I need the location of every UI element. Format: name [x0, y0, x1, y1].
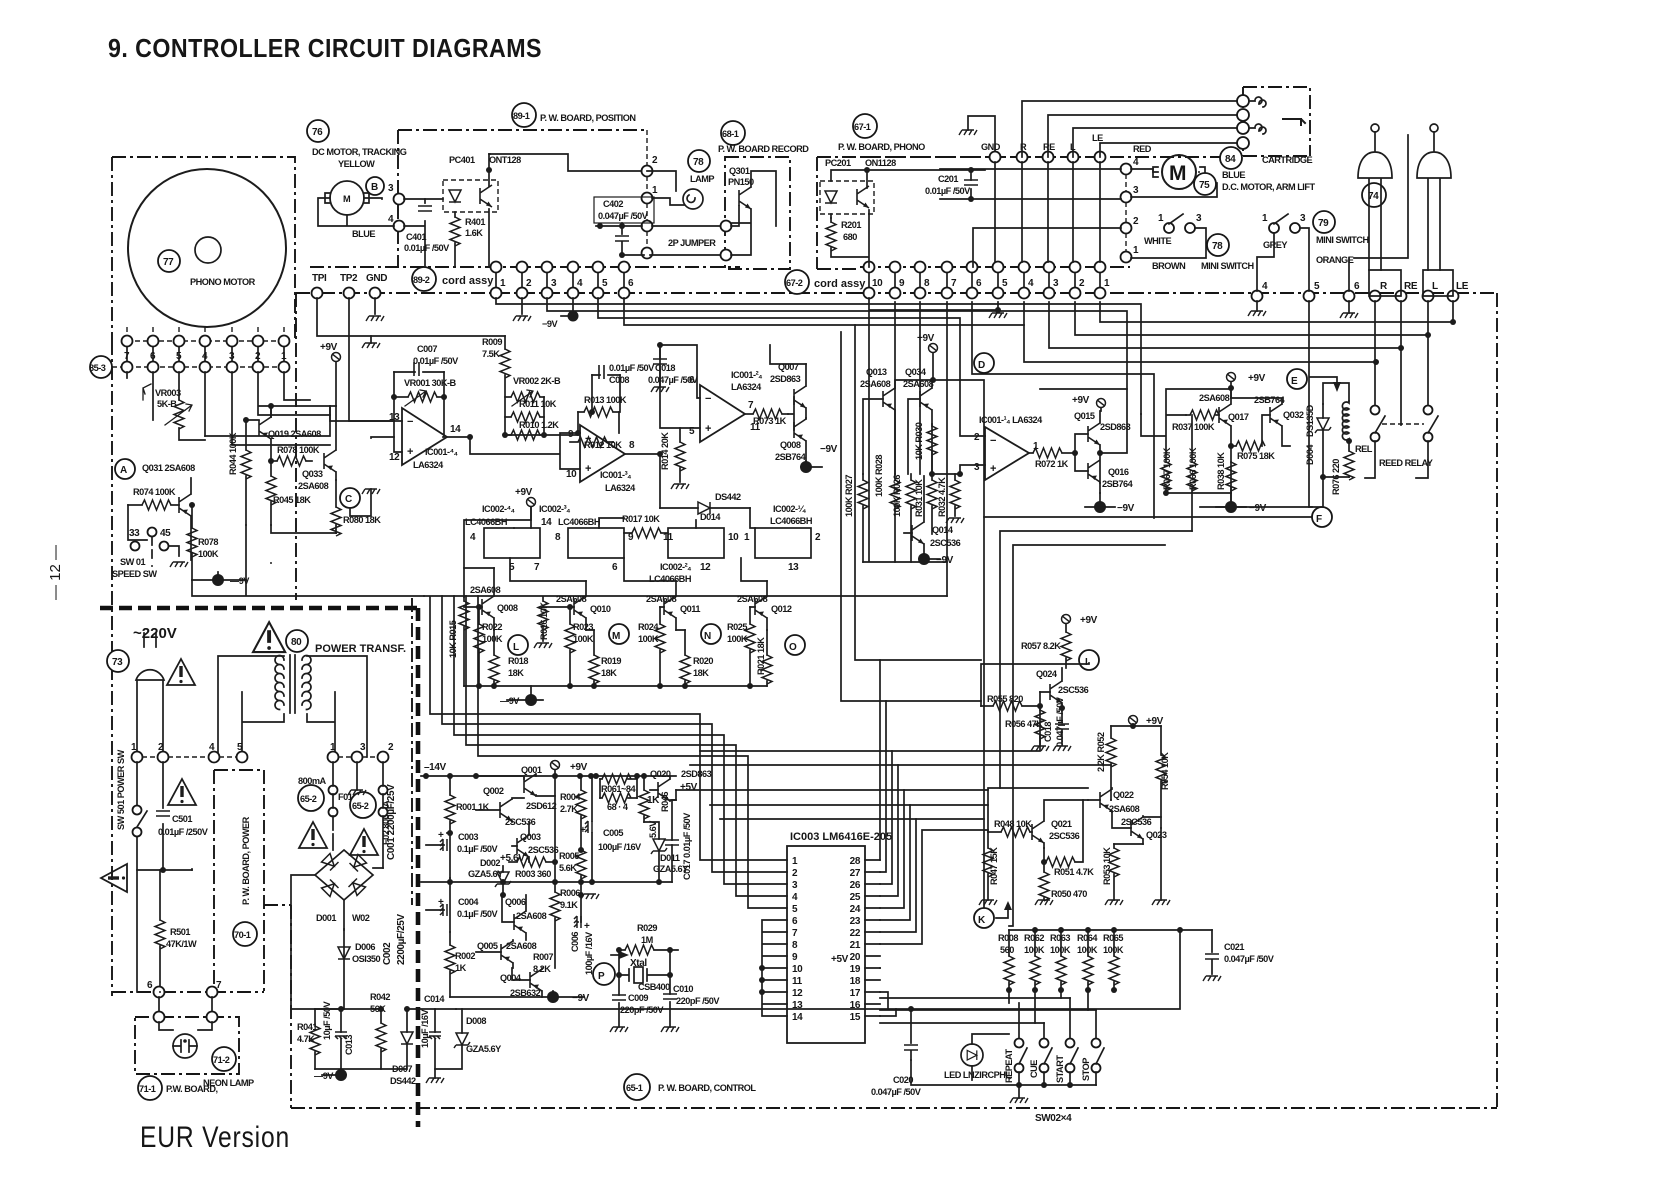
svg-text:PHONO MOTOR: PHONO MOTOR [190, 277, 256, 287]
power board right border dash-dot [411, 598, 413, 905]
control board left border [290, 905, 292, 1108]
svg-text:D001: D001 [316, 913, 336, 923]
svg-text:1M: 1M [641, 935, 654, 945]
svg-text:C006: C006 [570, 932, 580, 952]
svg-text:DS442: DS442 [390, 1076, 416, 1086]
ground top [959, 130, 977, 135]
node L circle [508, 635, 528, 655]
svg-text:18K: 18K [508, 668, 524, 678]
warning triangle b [350, 829, 378, 855]
+9V right [1227, 373, 1236, 382]
svg-text:100K R027: 100K R027 [844, 475, 854, 517]
wire between plugs [1349, 135, 1408, 291]
relay wires [1323, 383, 1349, 477]
svg-text:P. W. BOARD, CONTROL: P. W. BOARD, CONTROL [658, 1083, 756, 1093]
transformer secondary coil [302, 656, 311, 710]
ref 76 circle [307, 120, 329, 142]
67-2 circle label [785, 270, 809, 294]
wire down from C [350, 489, 371, 516]
wire K feed [1000, 531, 1192, 788]
svg-text:R073 1K: R073 1K [753, 416, 787, 426]
heavy dashed border power supply right vertical [416, 608, 421, 1127]
svg-text:1: 1 [1133, 245, 1139, 256]
svg-text:2SA608: 2SA608 [516, 911, 547, 921]
svg-text:BLUE: BLUE [352, 229, 375, 239]
svg-text:+: + [990, 463, 996, 475]
svg-text:IC001-⁴₄: IC001-⁴₄ [425, 447, 458, 457]
IC002-4 box [484, 528, 540, 558]
svg-text:R051 4.7K: R051 4.7K [1054, 867, 1094, 877]
svg-text:0.1µF /50V: 0.1µF /50V [457, 909, 499, 919]
svg-text:LAMP: LAMP [690, 174, 714, 184]
svg-text:−9V: −9V [572, 993, 590, 1004]
cartridge connector wires R RE L LE [1022, 101, 1237, 157]
svg-text:15: 15 [850, 1012, 861, 1023]
svg-text:SW 501 POWER SW: SW 501 POWER SW [116, 749, 126, 830]
svg-text:C020: C020 [893, 1075, 913, 1085]
neon lamp [159, 1022, 212, 1030]
svg-text:POWER TRANSF.: POWER TRANSF. [315, 643, 406, 655]
svg-text:R017 10K: R017 10K [622, 514, 660, 524]
bridge rectifier W02 [315, 850, 373, 900]
switch STOP [1092, 1039, 1101, 1048]
capacitor C402 [621, 223, 623, 255]
right border vertical dash-dot [1496, 293, 1498, 1108]
svg-text:10: 10 [728, 532, 739, 543]
svg-text:89-2: 89-2 [413, 275, 430, 285]
IC002-2 box [668, 528, 724, 558]
svg-text:IC001-¹₄ LA6324: IC001-¹₄ LA6324 [979, 415, 1043, 425]
svg-text:cord assy: cord assy [442, 275, 494, 287]
svg-text:DS442: DS442 [715, 492, 741, 502]
svg-text:R001 1K: R001 1K [456, 802, 490, 812]
svg-text:L: L [513, 642, 519, 653]
svg-text:SPEED SW: SPEED SW [112, 569, 157, 579]
svg-text:IC002-³₄: IC002-³₄ [539, 504, 570, 514]
svg-text:D: D [978, 360, 985, 371]
svg-text:Q022: Q022 [1113, 790, 1134, 800]
svg-text:78: 78 [693, 157, 704, 168]
svg-text:75: 75 [1199, 180, 1210, 191]
svg-text:79: 79 [1318, 218, 1329, 229]
svg-text:C501: C501 [172, 814, 192, 824]
svg-text:13: 13 [792, 1000, 803, 1011]
svg-text:R050 470: R050 470 [1051, 889, 1087, 899]
svg-text:VR002 2K-B: VR002 2K-B [513, 376, 561, 386]
svg-text:+: + [584, 921, 590, 932]
svg-text:3: 3 [1133, 185, 1139, 196]
opamp IC001-3 triangle [580, 425, 625, 482]
svg-text:21: 21 [850, 940, 861, 951]
svg-text:R042: R042 [370, 992, 390, 1002]
svg-text:Q002: Q002 [483, 786, 504, 796]
svg-text:3: 3 [360, 742, 366, 753]
svg-text:2SD863: 2SD863 [770, 374, 801, 384]
svg-text:5: 5 [1314, 281, 1320, 292]
svg-text:Q020: Q020 [650, 769, 671, 779]
ground 3' [348, 790, 366, 795]
svg-text:4: 4 [202, 351, 208, 362]
svg-text:2SC536: 2SC536 [1049, 831, 1080, 841]
svg-text:C: C [345, 494, 352, 505]
warning triangle near plug [167, 659, 195, 685]
svg-text:100µF /16V: 100µF /16V [598, 842, 642, 852]
svg-text:ON1128: ON1128 [865, 158, 896, 168]
wire node8 down [919, 302, 921, 474]
node K circle [974, 908, 994, 928]
speed switch arrow [143, 384, 151, 400]
svg-text:−9V: −9V [1117, 503, 1135, 514]
switch common line [911, 1060, 1096, 1085]
ground under C006 [578, 895, 581, 922]
wires R013/C008 loop [505, 375, 620, 435]
svg-text:0.01µF /50V: 0.01µF /50V [404, 243, 450, 253]
ref 80 circle [286, 630, 308, 652]
svg-text:Q024: Q024 [1036, 669, 1058, 679]
svg-text:0.1µF /50V: 0.1µF /50V [457, 844, 499, 854]
svg-text:P. W. BOARD, POWER: P. W. BOARD, POWER [241, 816, 251, 905]
svg-text:–14V: –14V [424, 762, 446, 773]
phono motor circle [128, 169, 286, 327]
svg-text:19: 19 [850, 964, 861, 975]
svg-text:10µF /16V: 10µF /16V [420, 1009, 430, 1048]
svg-text:3: 3 [388, 183, 394, 194]
IC003 left pin numbers [792, 856, 803, 1023]
svg-text:3: 3 [1196, 213, 1202, 224]
svg-text:C007: C007 [417, 344, 437, 354]
svg-text:7: 7 [748, 400, 754, 411]
svg-text:Q010: Q010 [590, 604, 611, 614]
wire PC401 emitter down [488, 209, 490, 267]
svg-text:45: 45 [160, 528, 171, 539]
cartridge box border [1243, 87, 1310, 156]
svg-text:−: − [990, 435, 996, 447]
svg-text:R061~84: R061~84 [601, 784, 636, 794]
svg-text:18K: 18K [693, 668, 709, 678]
svg-text:3: 3 [1300, 213, 1306, 224]
switch REPEAT [1015, 1039, 1024, 1048]
base bus wires to 4066 outputs [464, 558, 767, 597]
svg-text:R002: R002 [455, 951, 475, 961]
svg-text:3: 3 [974, 462, 980, 473]
svg-text:P. W. BOARD, PHONO: P. W. BOARD, PHONO [838, 142, 925, 152]
ref 78b circle [1207, 234, 1229, 256]
svg-text:33: 33 [129, 528, 140, 539]
PC201 diode [825, 191, 837, 203]
svg-text:2P JUMPER: 2P JUMPER [668, 238, 716, 248]
reed switch 2 [1424, 406, 1433, 415]
svg-text:IC001-²₄: IC001-²₄ [731, 370, 762, 380]
svg-text:10K R030: 10K R030 [914, 422, 924, 460]
svg-text:TPI: TPI [312, 273, 327, 284]
svg-text:5: 5 [1002, 278, 1008, 289]
svg-text:−: − [585, 433, 591, 445]
svg-text:— 12 —: — 12 — [47, 545, 64, 600]
svg-text:78: 78 [1212, 241, 1223, 252]
reed switch wires [1365, 301, 1428, 478]
svg-text:C014: C014 [424, 994, 445, 1004]
svg-text:1: 1 [744, 532, 750, 543]
svg-text:R006: R006 [560, 888, 580, 898]
svg-text:10µF /50V: 10µF /50V [322, 1001, 332, 1040]
svg-text:R501: R501 [170, 927, 190, 937]
-9V dot left [212, 574, 224, 586]
wire node5 run [598, 298, 960, 380]
svg-text:IC003 LM6416E-205: IC003 LM6416E-205 [790, 831, 892, 843]
svg-text:SW 01: SW 01 [120, 557, 145, 567]
optocoupler PC401 dashed box [443, 180, 498, 212]
node F circle [1312, 507, 1332, 527]
svg-text:7.5K: 7.5K [482, 349, 500, 359]
capacitor C401 [418, 206, 432, 211]
svg-text:LE: LE [1456, 281, 1469, 292]
svg-text:LE: LE [1092, 133, 1103, 143]
svg-text:GREY: GREY [1263, 240, 1287, 250]
svg-text:W02: W02 [352, 913, 370, 923]
wire node3b run [1049, 302, 1401, 348]
svg-text:C018: C018 [1043, 722, 1053, 742]
svg-text:R010 1.2K: R010 1.2K [519, 420, 559, 430]
wire from 85-3 area to opamp minus [330, 406, 394, 421]
wire node3 run [547, 298, 1127, 389]
svg-text:R201: R201 [841, 220, 861, 230]
svg-text:14: 14 [541, 517, 552, 528]
opamp IC001-4 triangle [402, 408, 447, 465]
svg-text:76: 76 [312, 127, 323, 138]
svg-text:0.047µF /50V: 0.047µF /50V [871, 1087, 922, 1097]
svg-text:Q008: Q008 [497, 603, 518, 613]
switch wires from resistors [1009, 990, 1088, 1023]
relay coil [1342, 401, 1349, 441]
svg-text:22: 22 [850, 928, 861, 939]
border at x=296 below cord assy [295, 293, 297, 600]
svg-text:+9V: +9V [515, 487, 533, 498]
IC003 right pin risers [880, 660, 988, 1016]
ref 71-1 [138, 1076, 162, 1100]
svg-text:70-1: 70-1 [234, 930, 251, 940]
svg-text:100K: 100K [198, 549, 219, 559]
svg-text:Q006: Q006 [505, 897, 526, 907]
svg-text:6: 6 [150, 351, 156, 362]
svg-text:Q016: Q016 [1108, 467, 1129, 477]
svg-text:73: 73 [112, 657, 123, 668]
svg-text:67-1: 67-1 [854, 122, 871, 132]
-9V dot row [525, 694, 537, 706]
svg-text:6: 6 [147, 980, 153, 991]
svg-text:−: − [407, 416, 413, 428]
dashed link between reed switches [1382, 423, 1424, 425]
svg-text:+: + [438, 830, 444, 841]
jumper node circles [721, 221, 732, 232]
svg-text:2SA608: 2SA608 [860, 379, 891, 389]
svg-text:47K/1W: 47K/1W [166, 939, 197, 949]
svg-text:10: 10 [792, 964, 803, 975]
svg-text:+: + [585, 463, 591, 475]
svg-text:R037 100K: R037 100K [1172, 422, 1215, 432]
svg-text:Q004: Q004 [500, 973, 522, 983]
opamp IC001-2 triangle [700, 385, 745, 442]
IC003 right pin stubs [865, 860, 880, 1016]
wire F feed [984, 517, 1312, 908]
ref 73 circle [107, 650, 129, 672]
PC201 transistor [857, 186, 869, 208]
svg-text:−: − [705, 393, 711, 405]
svg-text:9. CONTROLLER CIRCUIT DIAGRA: 9. CONTROLLER CIRCUIT DIAGRAMS [108, 33, 542, 63]
svg-text:cord assy: cord assy [814, 278, 866, 290]
svg-text:Q001: Q001 [521, 765, 542, 775]
+9V I [1062, 615, 1071, 624]
ref 67-1 circle [853, 114, 877, 138]
svg-text:C201: C201 [938, 174, 958, 184]
transformer core [290, 655, 295, 713]
svg-text:13: 13 [788, 562, 799, 573]
svg-text:12: 12 [792, 988, 803, 999]
svg-text:C401: C401 [406, 232, 426, 242]
switch CUE [1040, 1039, 1049, 1048]
svg-text:Q015: Q015 [1074, 411, 1095, 421]
left vertical border down from 85-3 [111, 341, 113, 996]
wire top R009 [371, 336, 505, 343]
C017 cap [665, 840, 679, 845]
svg-text:6: 6 [628, 278, 634, 289]
ref 89-1 circle [512, 103, 536, 127]
heavy dashed border power supply top [100, 606, 418, 611]
svg-text:EUR Version: EUR Version [140, 1121, 290, 1154]
arm motor wiring [1131, 169, 1217, 197]
svg-text:R031 10K: R031 10K [914, 479, 924, 517]
svg-text:24: 24 [850, 904, 861, 915]
regulator block bottom wire [421, 881, 672, 883]
svg-text:D008: D008 [466, 1016, 486, 1026]
wire pin2 left [973, 228, 1121, 267]
svg-text:2SA608: 2SA608 [1199, 393, 1230, 403]
svg-text:PC201: PC201 [825, 158, 851, 168]
svg-text:CSB400: CSB400 [638, 982, 670, 992]
svg-text:R053 10K: R053 10K [1102, 847, 1112, 885]
svg-text:2SA608: 2SA608 [1109, 804, 1140, 814]
svg-text:2: 2 [526, 278, 532, 289]
svg-text:LED LNZIRCPHL: LED LNZIRCPHL [944, 1070, 1011, 1080]
ground under sw [170, 562, 188, 567]
wire node9 down [894, 302, 896, 474]
svg-text:+: + [705, 423, 711, 435]
svg-text:3: 3 [1053, 278, 1059, 289]
svg-text:Q301: Q301 [729, 166, 750, 176]
svg-text:Q021: Q021 [1051, 819, 1072, 829]
C402 label box [594, 197, 654, 223]
svg-text:16: 16 [850, 1000, 861, 1011]
node I circle [1079, 650, 1099, 670]
svg-text:M: M [1169, 162, 1187, 185]
svg-text:84: 84 [1225, 154, 1236, 165]
svg-text:R038 10K: R038 10K [1216, 452, 1226, 490]
K arrow [996, 910, 1008, 918]
svg-text:MINI SWITCH: MINI SWITCH [1201, 261, 1255, 271]
svg-text:0.01µF /50V: 0.01µF /50V [413, 356, 459, 366]
svg-text:TP2: TP2 [340, 273, 358, 284]
node N circle [701, 624, 721, 644]
+9V above IC002 [527, 498, 536, 507]
mains plug 1 [1358, 132, 1392, 270]
svg-text:2: 2 [1079, 278, 1085, 289]
svg-text:0.01µF /50V: 0.01µF /50V [925, 186, 971, 196]
svg-text:18K: 18K [601, 668, 617, 678]
svg-text:−9V: −9V [820, 444, 838, 455]
svg-text:R: R [1380, 281, 1388, 292]
P arrow [611, 954, 619, 956]
svg-text:REL: REL [1355, 444, 1373, 454]
ref 75 circle [1194, 173, 1216, 195]
cartridge coils [1249, 97, 1266, 134]
opamp input wires [932, 380, 985, 474]
warning triangle a [299, 822, 327, 848]
svg-text:27: 27 [850, 868, 861, 879]
svg-text:OSI350: OSI350 [352, 954, 381, 964]
svg-text:20: 20 [850, 952, 861, 963]
svg-text:SW02×4: SW02×4 [1035, 1113, 1072, 1124]
-9V dot bottom [335, 1069, 347, 1081]
plug 2 connector box [1423, 270, 1453, 296]
svg-text:BROWN: BROWN [1152, 261, 1186, 271]
-9V dot Q016 [1094, 501, 1106, 513]
switch START [1066, 1039, 1075, 1048]
position board right edge dashed [646, 130, 648, 171]
svg-text:5: 5 [792, 904, 798, 915]
svg-text:4: 4 [1133, 157, 1139, 168]
svg-text:Q008: Q008 [780, 440, 801, 450]
svg-text:5: 5 [176, 351, 182, 362]
svg-text:Q011: Q011 [680, 604, 700, 614]
wires around IC001-3 [470, 433, 660, 469]
svg-text:10: 10 [566, 469, 577, 480]
svg-text:P: P [598, 971, 605, 982]
svg-text:IC002-²₄: IC002-²₄ [660, 562, 691, 572]
svg-text:2SD863: 2SD863 [1100, 422, 1131, 432]
svg-text:−9V: −9V [1249, 503, 1267, 514]
ref 78 circle lamp [688, 150, 710, 172]
svg-text:6: 6 [612, 562, 618, 573]
svg-text:2: 2 [255, 351, 261, 362]
wire node10 gnd run [863, 298, 998, 562]
svg-text:11: 11 [792, 976, 803, 987]
R008 top bus [1009, 929, 1212, 931]
svg-text:R018: R018 [508, 656, 528, 666]
svg-text:8: 8 [792, 940, 798, 951]
svg-text:6: 6 [792, 916, 798, 927]
motor wires to nodes 3 and 4 [364, 198, 382, 199]
svg-text:68-1: 68-1 [722, 129, 739, 139]
svg-text:4: 4 [577, 278, 583, 289]
svg-text:CUE: CUE [1029, 1060, 1039, 1078]
svg-text:LC4066BH: LC4066BH [558, 517, 601, 527]
svg-text:D011: D011 [660, 853, 680, 863]
transformer primary coil [275, 656, 284, 710]
svg-text:+9V: +9V [1248, 373, 1266, 384]
svg-text:D006: D006 [355, 942, 375, 952]
-9V dot regulator [547, 991, 559, 1003]
opamp wires [394, 372, 470, 452]
svg-text:14: 14 [792, 1012, 803, 1023]
cartridge bottom dash to bus [1243, 155, 1310, 157]
svg-text:2: 2 [974, 432, 980, 443]
svg-text:R007: R007 [533, 952, 553, 962]
svg-text:ORANGE: ORANGE [1316, 255, 1354, 265]
svg-text:2: 2 [815, 532, 821, 543]
wire node6 run [624, 298, 1024, 325]
wire node2 to lamp [647, 171, 684, 205]
wire node2b run [1075, 302, 1428, 335]
long verticals from top right [1309, 301, 1453, 507]
